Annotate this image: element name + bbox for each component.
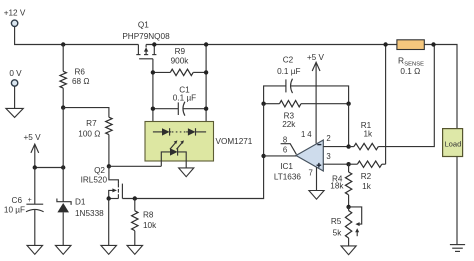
- wire Q2 source to ground: [108, 199, 110, 246]
- earth ground load: [450, 245, 465, 252]
- svg-text:PHP79NQ08: PHP79NQ08: [122, 32, 170, 41]
- LED inside VOM1271: [161, 148, 186, 168]
- svg-text:R9: R9: [175, 47, 186, 56]
- svg-text:6: 6: [283, 145, 287, 154]
- svg-text:10k: 10k: [143, 221, 157, 230]
- wire +12V stem and left rail to Q1 source: [15, 27, 139, 45]
- svg-text:R8: R8: [143, 210, 154, 219]
- svg-text:R2: R2: [361, 172, 372, 181]
- photodiode array inside VOM1271: [153, 128, 206, 135]
- svg-text:10 µF: 10 µF: [4, 205, 25, 214]
- node Q2 source: [107, 196, 111, 200]
- node Rsense left tap: [383, 42, 387, 46]
- svg-text:Q1: Q1: [138, 21, 149, 30]
- diode D1 zener 1N5338: [57, 198, 104, 246]
- resistor R8: [132, 199, 158, 246]
- wire rail Rsense to Load drop: [424, 45, 457, 129]
- svg-text:+: +: [28, 197, 32, 204]
- ground IC1: [309, 191, 324, 200]
- svg-text:2: 2: [326, 134, 330, 143]
- svg-text:5k: 5k: [333, 228, 343, 237]
- transistor Q1: [122, 21, 170, 59]
- node C6 top: [33, 165, 37, 169]
- pin 8 lead: [281, 144, 297, 155]
- wire pin 3: [323, 163, 348, 165]
- node R8 top: [133, 196, 137, 200]
- node R4 R5 wiper: [346, 205, 350, 209]
- wire op-amp output: [264, 155, 297, 157]
- svg-text:3: 3: [326, 152, 330, 161]
- capacitor C6: [4, 168, 44, 246]
- svg-text:IRL520: IRL520: [81, 176, 108, 185]
- wire feedback vertical left: [263, 104, 265, 156]
- node D1 top link: [61, 165, 65, 169]
- svg-text:R5: R5: [331, 217, 342, 226]
- node Q1 drain on rail: [152, 42, 156, 46]
- wire pin 2: [323, 146, 348, 148]
- op-amp IC1 LT1636: [274, 130, 331, 182]
- svg-text:22k: 22k: [282, 120, 296, 129]
- node R3 right: [346, 102, 350, 106]
- svg-text:IC1: IC1: [280, 162, 293, 171]
- svg-text:Q2: Q2: [94, 166, 105, 175]
- svg-text:68 Ω: 68 Ω: [72, 77, 90, 86]
- svg-text:VOM1271: VOM1271: [216, 137, 253, 146]
- svg-text:7: 7: [309, 168, 313, 177]
- power flag +5V left: [23, 133, 41, 167]
- node R9 right: [204, 70, 208, 74]
- wire +5V node link: [35, 167, 63, 169]
- svg-text:C2: C2: [283, 56, 294, 65]
- resistor R6: [60, 45, 90, 108]
- svg-text:Load: Load: [444, 140, 461, 149]
- svg-text:900k: 900k: [171, 57, 190, 66]
- node rail R6: [61, 42, 65, 46]
- wire +5V node down to D1: [62, 108, 64, 202]
- svg-text:R7: R7: [86, 119, 97, 128]
- wire Q2 gate to op-amp output: [122, 156, 263, 199]
- node C1 right: [204, 107, 208, 111]
- node C1 left: [151, 107, 155, 111]
- wire inverting node vertical: [348, 104, 350, 147]
- resistor R1: [349, 45, 435, 150]
- wire right vertical R9/C1 to rail: [205, 45, 207, 132]
- node Q2 drain / opto LED anode: [107, 164, 111, 168]
- ground R5: [341, 246, 356, 255]
- wire load to earth: [456, 157, 458, 245]
- svg-text:1k: 1k: [362, 182, 372, 191]
- terminal 0V: [9, 69, 22, 108]
- svg-text:C6: C6: [12, 196, 23, 205]
- svg-text:4: 4: [307, 130, 312, 139]
- svg-text:+5 V: +5 V: [307, 53, 325, 62]
- potentiometer R5: [331, 207, 362, 246]
- svg-text:18k: 18k: [330, 182, 344, 191]
- svg-text:1k: 1k: [363, 130, 373, 139]
- node R3 left: [261, 102, 265, 106]
- node pin3 R2: [346, 162, 350, 166]
- optocoupler U2 VOM1271 box: [145, 122, 253, 162]
- transistor Q2: [81, 166, 123, 198]
- wire Q1 gate vertical down to opto: [152, 59, 154, 132]
- ground D1: [55, 245, 71, 254]
- svg-text:0.1 µF: 0.1 µF: [173, 94, 196, 103]
- svg-text:1N5338: 1N5338: [75, 209, 104, 218]
- resistor R4: [330, 164, 352, 207]
- terminal +12V: [4, 8, 26, 26]
- resistor R2: [349, 45, 386, 192]
- svg-text:D1: D1: [75, 198, 86, 207]
- svg-text:R6: R6: [75, 68, 86, 77]
- node rail R9 right: [204, 42, 208, 46]
- ground Q2: [101, 245, 117, 254]
- ground 0V: [6, 108, 23, 117]
- resistor R3: [264, 101, 349, 130]
- wire rail from Q1 to Rsense: [146, 44, 397, 46]
- wire to opto LED anode: [109, 165, 161, 167]
- capacitor C2: [264, 56, 349, 104]
- svg-text:1: 1: [301, 130, 305, 139]
- node R9 left: [151, 70, 155, 74]
- node +5V tap: [61, 105, 65, 109]
- light coupling arrows: [170, 140, 184, 149]
- node Rsense right tap: [431, 42, 435, 46]
- svg-text:+5 V: +5 V: [23, 133, 41, 142]
- node pin2 R1: [346, 144, 350, 148]
- power flag +5V right: [307, 53, 325, 143]
- svg-text:8: 8: [283, 135, 287, 144]
- ground VOM1271: [179, 168, 194, 177]
- capacitor C1: [153, 85, 206, 115]
- resistor R9: [153, 47, 206, 75]
- svg-text:0 V: 0 V: [9, 69, 22, 78]
- ground R8: [127, 245, 143, 254]
- resistor R7: [63, 108, 112, 167]
- ground C6: [27, 245, 43, 254]
- svg-text:0.1 µF: 0.1 µF: [277, 67, 300, 76]
- svg-text:R: R: [398, 55, 404, 65]
- svg-text:0.1 Ω: 0.1 Ω: [400, 67, 420, 76]
- wire pin 7 to ground: [316, 167, 318, 190]
- svg-text:+12 V: +12 V: [4, 8, 26, 17]
- load box: [443, 129, 463, 157]
- resistor Rsense: [397, 40, 424, 76]
- svg-text:100 Ω: 100 Ω: [78, 130, 100, 139]
- node op-amp output: [261, 154, 265, 158]
- svg-text:LT1636: LT1636: [274, 173, 302, 182]
